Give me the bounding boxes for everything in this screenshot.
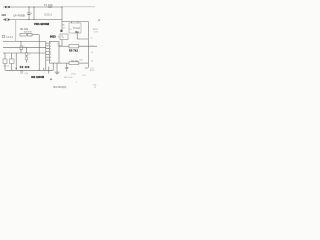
svg-text:R1 10k: R1 10k — [20, 28, 28, 31]
svg-text:500 1W: 500 1W — [24, 32, 32, 34]
svg-text:ATRC: ATRC — [93, 28, 99, 31]
svg-text:3: 3 — [50, 49, 51, 51]
wire WB — [3, 46, 46, 48]
junction tick J2 — [43, 68, 45, 71]
capacitor C7 lead — [66, 63, 68, 67]
svg-text:4702: 4702 — [82, 75, 86, 77]
svg-text:ATRC: ATRC — [90, 69, 95, 72]
svg-text:7: 7 — [50, 60, 51, 62]
wire bus bottom stub — [85, 67, 89, 69]
wire vertical V7 — [15, 53, 17, 70]
wire T8 to bus — [77, 33, 88, 39]
svg-text:402 4203M: 402 4203M — [31, 75, 44, 79]
capacitor C6 box — [10, 59, 15, 64]
svg-text:R5 7k2: R5 7k2 — [69, 50, 78, 53]
svg-text:47: 47 — [28, 54, 30, 56]
wire vertical V3 — [15, 20, 17, 42]
junction tick J3 — [48, 67, 50, 74]
svg-text:801 8081(M): 801 8081(M) — [53, 87, 66, 89]
wire vertical V6 — [26, 47, 28, 62]
resistor R1 leads — [32, 34, 39, 36]
svg-text:4: 4 — [76, 82, 77, 84]
svg-text:R2 10k: R2 10k — [20, 66, 30, 69]
resistor R4 box — [69, 62, 79, 65]
wire WC — [3, 52, 46, 54]
wire top-right T3 — [62, 21, 88, 23]
svg-text:F1 16A: F1 16A — [44, 3, 53, 7]
svg-text:5k: 5k — [91, 60, 93, 62]
resistor R5 box — [69, 45, 79, 48]
svg-text:4200M: 4200M — [40, 22, 50, 26]
capacitor C1 box — [2, 35, 5, 37]
resistor R1b box — [27, 33, 32, 36]
resistor R1 box — [20, 33, 26, 36]
resistor R3 box — [25, 53, 28, 56]
capacitor C4 leads — [28, 7, 30, 20]
junction J1 — [39, 70, 40, 71]
svg-text:4TRC: 4TRC — [71, 73, 77, 75]
wire R4 to bus — [79, 62, 89, 64]
capacitor C6 leads — [11, 53, 13, 70]
component K1 blob — [60, 30, 62, 32]
resistor R3b box — [25, 57, 28, 60]
fuse F1 oval on rail L1 — [5, 6, 9, 8]
capacitor C4 plates — [27, 13, 30, 14]
transformer T8 box — [69, 23, 81, 33]
svg-text:+5: +5 — [98, 19, 100, 22]
svg-text:4: 4 — [50, 51, 51, 53]
wire top rail L1 faint extension — [62, 6, 95, 8]
wire K1 to R5 wire — [61, 40, 63, 47]
blob dark — [50, 79, 51, 81]
ground GND bars — [55, 72, 60, 74]
wire vertical V4 — [38, 35, 40, 71]
wire WD bottom — [5, 69, 53, 71]
svg-text:16k: 16k — [79, 60, 82, 62]
svg-text:1k: 1k — [91, 37, 93, 39]
wire vertical V2 — [61, 7, 63, 30]
wire R5 to bus — [79, 45, 97, 47]
capacitor C7 lower lead — [66, 69, 68, 72]
fuse F2 oval on rail L2 — [5, 19, 9, 21]
capacitor C7 plates — [65, 67, 68, 68]
wire pin to R4 — [59, 62, 69, 64]
svg-text:15: 15 — [94, 87, 96, 89]
svg-text:8A/: 8A/ — [62, 24, 65, 27]
svg-text:1n: 1n — [62, 37, 64, 39]
svg-text:T8 16A: T8 16A — [73, 27, 81, 30]
svg-text:8M 4702: 8M 4702 — [64, 77, 73, 79]
svg-text:2: 2 — [50, 46, 51, 48]
wire IC bottom stem — [52, 63, 54, 70]
svg-text:16A: 16A — [75, 31, 80, 34]
svg-text:COM: COM — [94, 32, 99, 34]
junction J4 — [16, 68, 17, 69]
IC U1 box — [49, 42, 59, 64]
capacitor C2 box — [20, 46, 23, 49]
IC U1 left pin stubs — [46, 43, 50, 60]
wire top rail L2 — [3, 19, 62, 21]
svg-text:1k: 1k — [91, 46, 93, 48]
wire vertical V5 — [20, 41, 22, 53]
svg-text:82k: 82k — [94, 84, 97, 86]
svg-text:6: 6 — [50, 57, 51, 59]
svg-text:C3 0.1: C3 0.1 — [44, 13, 52, 16]
resistor R7 body — [21, 71, 23, 73]
capacitor C5 box — [3, 59, 7, 64]
capacitor C5 leads — [4, 53, 6, 70]
svg-text:110: 110 — [1, 13, 6, 17]
svg-text:C1 0.1: C1 0.1 — [6, 37, 13, 39]
svg-text:5: 5 — [24, 46, 25, 48]
wire WA — [3, 40, 46, 42]
resistor R7 drop — [21, 69, 23, 72]
wire right bus — [87, 22, 89, 68]
svg-text:0013: 0013 — [50, 35, 56, 39]
wire left bus — [45, 41, 47, 70]
wire vertical V1 — [33, 7, 35, 20]
wire top rail L1 — [3, 6, 62, 8]
svg-text:R4 16k: R4 16k — [71, 60, 79, 62]
svg-text:2k: 2k — [91, 52, 93, 54]
svg-text:10: 10 — [30, 35, 32, 37]
transformer T8 top leads — [72, 22, 79, 24]
fuse F1 body — [48, 6, 53, 8]
ground GND stem — [56, 63, 58, 72]
junction dots rails — [29, 7, 30, 8]
relay K1 box — [60, 34, 68, 40]
svg-text:0.1 0.1: 0.1 0.1 — [3, 65, 10, 67]
svg-text:5: 5 — [50, 54, 51, 56]
svg-text:C4 4700B: C4 4700B — [13, 14, 25, 18]
wire pin to R5 — [59, 45, 69, 47]
svg-text:1: 1 — [50, 43, 51, 45]
